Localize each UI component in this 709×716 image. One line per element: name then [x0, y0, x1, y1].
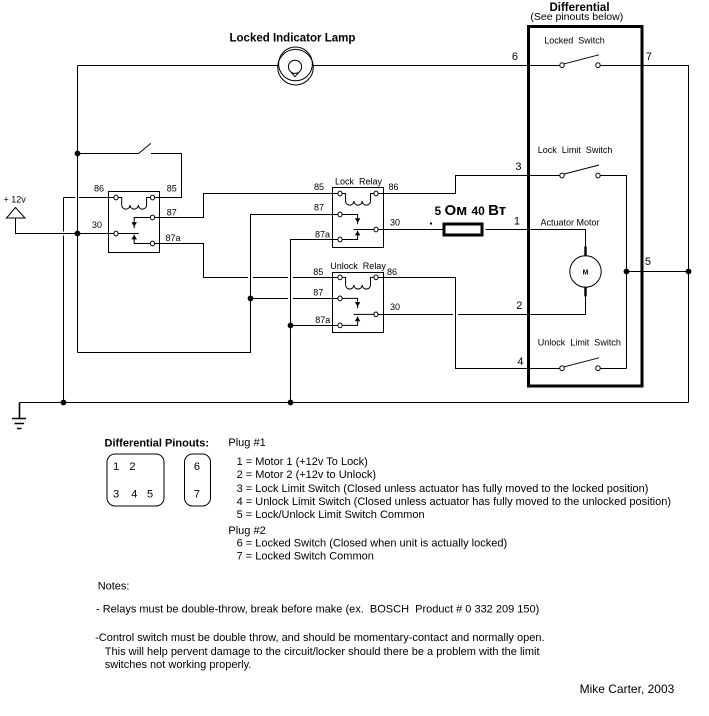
wire top lamp row right to differential pin 6 [313, 64, 560, 66]
label Actuator Motor [541, 217, 600, 227]
svg-text:2 = Motor 2 (+12v to Unlock): 2 = Motor 2 (+12v to Unlock) [237, 469, 376, 481]
wire lock relay 87 down and left to +12v bus [78, 215, 339, 353]
node pin 2 [516, 300, 522, 312]
power +12v supply [4, 194, 27, 218]
svg-text:Locked Switch: Locked Switch [544, 35, 605, 45]
svg-text:30: 30 [92, 220, 102, 230]
svg-text:5: 5 [645, 256, 651, 268]
ground symbol [12, 403, 26, 429]
svg-text:87a: 87a [315, 315, 330, 325]
svg-text:85: 85 [313, 267, 323, 277]
svg-text:6: 6 [194, 461, 200, 473]
svg-text:86: 86 [387, 267, 397, 277]
resistor 5 Om 40 Wt [430, 202, 506, 235]
svg-text:Differential Pinouts:: Differential Pinouts: [105, 437, 210, 449]
svg-text:86: 86 [389, 182, 399, 192]
wire control 87a to unlock relay 85 [155, 244, 338, 278]
svg-text:Locked Indicator Lamp: Locked Indicator Lamp [230, 32, 356, 44]
switch Unlock Limit Switch [538, 337, 621, 370]
svg-text:This will help pervent damage: This will help pervent damage to the cir… [105, 646, 540, 658]
wire control switch feed [78, 153, 139, 155]
svg-text:5 Ом 40 Вт: 5 Ом 40 Вт [435, 202, 507, 219]
svg-text:86: 86 [94, 184, 104, 194]
svg-text:Notes:: Notes: [98, 581, 130, 593]
svg-text:1: 1 [113, 461, 119, 473]
relay (control, double-throw) [92, 184, 181, 253]
relay Unlock Relay [313, 261, 400, 333]
svg-text:6: 6 [512, 51, 518, 63]
node pin 4 [517, 356, 523, 368]
svg-text:85: 85 [167, 184, 177, 194]
svg-text:(See pinouts below): (See pinouts below) [530, 11, 623, 23]
wire lock limit switch right down to pin5 node [600, 176, 627, 369]
wire pin 7 to right side down to ground bus [600, 65, 689, 402]
node pin 1 [514, 216, 520, 228]
wire lock relay 30 to resistor [378, 229, 443, 231]
svg-text:Mike Carter, 2003: Mike Carter, 2003 [580, 682, 675, 696]
control switch lever [139, 143, 151, 153]
svg-text:M: M [583, 270, 589, 277]
node junction limit switch common [624, 269, 630, 275]
svg-text:Actuator Motor: Actuator Motor [541, 217, 600, 227]
wire left vertical bus from lamp row down [77, 65, 79, 352]
text Plug #1 listing [228, 437, 671, 521]
svg-text:+ 12v: + 12v [4, 194, 27, 204]
svg-text:- Relays must be double-throw,: - Relays must be double-throw, break bef… [96, 604, 539, 616]
differential enclosure box [529, 2, 643, 386]
wire unlock relay 87 [251, 297, 339, 299]
wire unlock relay 87a [291, 324, 339, 326]
node junction lock87/unlock87 [248, 296, 254, 302]
motor M (actuator) [570, 247, 601, 297]
wire top lamp row left [78, 64, 279, 66]
node junction +12v tap on left bus [75, 231, 81, 237]
wire resistor to motor (pin 1) [486, 230, 586, 257]
svg-text:Plug #1: Plug #1 [228, 437, 265, 449]
svg-text:7: 7 [646, 51, 652, 63]
text Plug #2 listing [228, 525, 507, 563]
svg-text:1 = Motor 1 (+12v To Lock): 1 = Motor 1 (+12v To Lock) [237, 456, 368, 468]
svg-text:4 = Unlock Limit Switch (Close: 4 = Unlock Limit Switch (Closed unless a… [237, 496, 671, 508]
svg-text:4: 4 [517, 356, 523, 368]
wire +12v to control relay pin 30 [16, 218, 115, 234]
node pin 7 [646, 51, 652, 63]
node junction ground of coil on bus [61, 400, 67, 406]
ground bus wire [20, 402, 689, 404]
svg-text:87: 87 [313, 288, 323, 298]
svg-text:Lock Limit Switch: Lock Limit Switch [538, 145, 613, 155]
svg-text:87a: 87a [315, 230, 330, 240]
svg-text:87a: 87a [166, 233, 181, 243]
svg-text:-Control switch must be double: -Control switch must be double throw, an… [95, 632, 544, 644]
text signature [580, 682, 675, 696]
svg-text:5: 5 [147, 488, 153, 500]
wire pin 5 common [627, 271, 689, 273]
svg-text:85: 85 [314, 182, 324, 192]
node junction at control switch tap [75, 151, 81, 157]
wire lock relay 87a down to ground bus [291, 240, 339, 403]
wire control relay pin 86 to ground bus [64, 198, 115, 403]
svg-text:Unlock Relay: Unlock Relay [330, 261, 386, 271]
svg-text:3 = Lock Limit Switch (Closed: 3 = Lock Limit Switch (Closed unless act… [237, 483, 649, 495]
switch Locked Switch [544, 35, 605, 67]
svg-text:3: 3 [515, 161, 521, 173]
wire control 87 to lock relay 85 [155, 194, 338, 218]
connector Plug #2 pinout box [185, 454, 211, 506]
svg-text:87: 87 [314, 203, 324, 213]
svg-text:Lock Relay: Lock Relay [335, 177, 383, 187]
svg-text:87: 87 [167, 208, 177, 218]
svg-text:2: 2 [129, 461, 135, 473]
svg-text:7 = Locked Switch Common: 7 = Locked Switch Common [237, 551, 374, 563]
node junction pin5 on right bus [686, 269, 692, 275]
lamp Locked Indicator Lamp [230, 32, 356, 85]
wire control switch to relay pin 85 [151, 154, 182, 198]
svg-text:4: 4 [131, 488, 137, 500]
svg-text:1: 1 [514, 216, 520, 228]
connector Plug #1 pinout box [105, 437, 210, 506]
svg-text:6 = Locked Switch (Closed when: 6 = Locked Switch (Closed when unit is a… [237, 538, 508, 550]
svg-text:2: 2 [516, 300, 522, 312]
svg-text:5 = Lock/Unlock Limit Switch C: 5 = Lock/Unlock Limit Switch Common [237, 509, 425, 521]
node pin 5 [645, 256, 651, 268]
svg-text:30: 30 [390, 302, 400, 312]
text notes [95, 581, 544, 672]
node pin 3 [515, 161, 521, 173]
wire lock relay 86 up to lock limit switch (pin 3) [378, 176, 560, 194]
wire motor bottom to unlock relay 30 (pin 2) [378, 287, 585, 314]
svg-text:Unlock Limit Switch: Unlock Limit Switch [538, 337, 621, 347]
node junction 87a line on ground bus [288, 400, 294, 406]
node junction lock87a/unlock87a [288, 323, 294, 329]
switch Lock Limit Switch [538, 145, 613, 178]
svg-text:7: 7 [194, 488, 200, 500]
svg-text:3: 3 [113, 488, 119, 500]
svg-text:switches not working properly.: switches not working properly. [105, 659, 252, 671]
relay Lock Relay [314, 177, 400, 248]
wire unlock limit switch right [600, 367, 627, 369]
node pin 6 [512, 51, 518, 63]
wire unlock relay 86 down to unlock limit switch (pin 4) [378, 277, 560, 368]
svg-text:30: 30 [390, 218, 400, 228]
svg-text:Plug #2: Plug #2 [228, 525, 265, 537]
